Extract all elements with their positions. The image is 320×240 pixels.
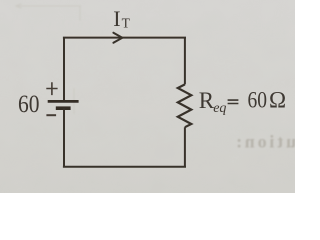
wire left lower xyxy=(63,108,65,167)
svg-text:60: 60 xyxy=(248,87,268,112)
wire right lower xyxy=(184,127,186,167)
resistor Req (60 ohm) zigzag xyxy=(178,84,192,127)
svg-text:T: T xyxy=(122,16,131,31)
minus sign xyxy=(46,114,56,116)
svg-text:I: I xyxy=(113,6,120,31)
wire right upper (top-right corner to resistor) xyxy=(184,38,186,85)
svg-text:Ω: Ω xyxy=(269,87,286,112)
svg-text:60: 60 xyxy=(18,91,40,118)
current arrow xyxy=(113,33,122,43)
plus sign xyxy=(46,82,57,95)
wire bottom xyxy=(63,166,186,168)
wire left upper (battery + terminal to top-left corner) xyxy=(63,38,65,102)
wire top xyxy=(63,37,186,39)
svg-text:ution:: ution: xyxy=(236,132,295,152)
svg-text:eq: eq xyxy=(213,101,226,116)
label Req = 60 ohm xyxy=(199,87,286,115)
battery V1 (60 V source): long thin + plate over short thick - plate xyxy=(48,101,79,108)
